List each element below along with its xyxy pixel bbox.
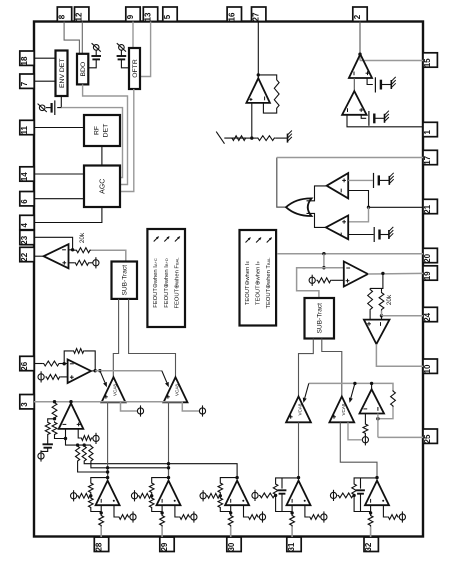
svg-text:11: 11: [20, 126, 29, 135]
wire feedback top: [258, 75, 276, 78]
svg-text:16: 16: [227, 12, 236, 21]
wire ladder branch: [48, 419, 55, 422]
control arrow into VCA4: [349, 383, 355, 403]
ground at divider: [288, 131, 292, 143]
wire comparator A3 output to OR input 1: [307, 186, 327, 201]
terminal circle below A10: [362, 434, 368, 445]
wire node to subtractor amp minus: [381, 316, 383, 320]
wire A4 output to OR input 2: [307, 213, 326, 227]
wire R2 to capacitor: [47, 436, 49, 445]
wire capacitor to ground: [374, 117, 384, 119]
node FE amp minus: [62, 362, 65, 365]
svg-text:27: 27: [252, 12, 261, 21]
ground at A4: [389, 227, 393, 239]
capacitor ladder: [43, 444, 53, 447]
VCA3 amplifier: [286, 397, 311, 423]
svg-text:24: 24: [423, 312, 432, 321]
svg-text:8: 8: [58, 14, 67, 19]
wire feedback bottom to minus input: [263, 103, 276, 113]
wire to pin: [100, 527, 102, 538]
wire SUB-Tract to VCA1 control: [113, 299, 118, 377]
resistor plus bias: [179, 515, 191, 520]
op-amp comparator A3: [327, 173, 349, 198]
terminal circle at A6 plus input: [309, 275, 315, 286]
RF amplifier 3 (pin 30): [200, 476, 266, 537]
pin 9: [126, 7, 140, 21]
resistor feedback upper: [149, 482, 154, 494]
terminal circle ladder: [38, 450, 44, 461]
wire resistor to terminal: [90, 262, 93, 264]
pin 11: [20, 120, 34, 134]
resistor divider left: [231, 136, 247, 141]
resistor feedback lower: [149, 497, 154, 509]
pin 13: [143, 7, 157, 21]
svg-text:6: 6: [20, 199, 29, 204]
wire capacitor to ground: [380, 234, 389, 236]
block SUB-Tract (left): [112, 262, 138, 299]
resistor gain A: [368, 288, 373, 310]
node A9 minus: [64, 437, 67, 440]
op-amp RF amplifier: [225, 481, 249, 506]
wire A2 minus input to pin 1: [347, 115, 423, 127]
wire BDO to external capacitor: [88, 60, 96, 68]
terminal circle bias: [200, 493, 206, 499]
node trio 1: [76, 443, 79, 446]
wire pin 2 to buffer A1: [359, 22, 361, 55]
wire OFTR to AGC input 3: [120, 89, 134, 192]
terminal circle VCA2 out: [199, 405, 205, 416]
wire RF DET to AGC: [101, 146, 103, 166]
node mid feedback: [219, 494, 222, 497]
svg-text:DET: DET: [103, 124, 110, 138]
bus wire to RF amp 3: [84, 462, 237, 478]
resistor plus bias: [118, 515, 130, 520]
ground at A2: [385, 111, 389, 123]
resistor feedback: [273, 483, 278, 495]
wire A6 output to pin 19: [368, 272, 423, 275]
svg-text:RF: RF: [94, 126, 101, 135]
terminal circle plus bias: [399, 514, 405, 520]
node mid feedback: [89, 494, 92, 497]
capacitor at OFTR (external): [117, 56, 127, 59]
resistor FE feedback: [73, 349, 85, 354]
wire 20K to SUB-Tract left: [91, 250, 126, 261]
wire to pin: [161, 527, 163, 538]
svg-text:2: 2: [353, 14, 362, 19]
wire divider left end: [224, 137, 246, 139]
terminal circle at A9 plus: [93, 433, 99, 444]
node A9 output: [69, 400, 72, 403]
svg-text:9: 9: [126, 14, 135, 19]
node input bottom: [290, 511, 293, 514]
pin 24: [423, 307, 437, 321]
terminal circle plus bias: [321, 514, 327, 520]
node trio 2: [83, 443, 86, 446]
svg-text:VCA8: VCA8: [341, 403, 346, 415]
resistor feedback upper: [89, 482, 94, 494]
capacitor feedback: [360, 478, 362, 489]
svg-text:VCA8: VCA8: [298, 403, 303, 415]
resistor to package pin: [100, 512, 102, 515]
resistor plus bias: [309, 515, 321, 520]
svg-text:30: 30: [227, 542, 236, 551]
pin 14: [20, 167, 34, 181]
wire plus input right: [175, 505, 179, 517]
terminal circle at BDO cap: [92, 43, 101, 51]
svg-text:TEOUT⊕when IF: TEOUT⊕when IF: [256, 260, 262, 305]
terminal circle bias: [131, 493, 137, 499]
wire plus input right: [114, 505, 118, 517]
wire capacitor to ground: [381, 84, 391, 86]
break slash at divider left: [216, 132, 224, 144]
svg-text:SUB-Tract: SUB-Tract: [317, 303, 324, 334]
wire pin 18 to ENV DET: [34, 57, 56, 59]
block SUB-Tract (right): [305, 298, 335, 339]
wire A4 minus input to capacitor: [348, 234, 373, 236]
wire OR output to pin 17: [277, 158, 288, 208]
resistor bias: [337, 493, 354, 498]
resistor bias: [77, 493, 91, 498]
wire A7 output to pin 10: [376, 344, 423, 366]
block ENV DET: [56, 51, 68, 97]
svg-text:TEOUT⊖when IE: TEOUT⊖when IE: [245, 261, 251, 306]
wire A10 output to bus: [371, 383, 373, 389]
terminal circle FE plus: [38, 371, 44, 382]
terminal circle bias: [71, 493, 77, 499]
terminal circle plus bias: [191, 514, 197, 520]
wire pin 8 to BDO: [64, 22, 79, 54]
wire A2 output to A1 minus input: [353, 78, 355, 91]
resistor FE amp input: [43, 361, 60, 366]
pin 31: [287, 537, 301, 551]
op-amp RF amplifier: [157, 481, 181, 506]
terminal circle bias: [252, 492, 258, 498]
wire pin 13 to OFTR: [140, 22, 151, 77]
svg-text:AGC: AGC: [99, 179, 106, 194]
wire A3 minus input to pin 21 node: [348, 191, 368, 208]
wire feedback loop left: [276, 478, 299, 483]
svg-text:20k: 20k: [79, 232, 86, 243]
svg-text:VCA8: VCA8: [175, 384, 180, 396]
svg-text:29: 29: [160, 542, 169, 551]
node A8 output: [94, 369, 97, 372]
wire A8 output control bus: [91, 370, 95, 372]
pin 2: [353, 7, 367, 21]
pin 27: [252, 7, 266, 21]
wire capacitor to terminal: [41, 448, 48, 452]
wire OFTR to external capacitor: [121, 60, 129, 68]
svg-text:ENV DET: ENV DET: [59, 59, 66, 88]
terminal circle at OFTR cap: [117, 43, 126, 51]
resistor bias: [259, 493, 276, 498]
op-amp comparator A4: [326, 216, 348, 240]
RF amplifier 5 (pin 32): [330, 476, 405, 537]
resistor 20K feedback: [75, 248, 91, 253]
svg-text:23: 23: [20, 235, 29, 244]
pin 21: [423, 199, 437, 213]
op-amp A9: [59, 403, 84, 429]
ground at A1: [391, 77, 395, 89]
wire to pin 24: [382, 311, 424, 316]
svg-text:BDO: BDO: [80, 62, 87, 77]
control arrow into VCA3: [303, 383, 309, 403]
op-amp A10 TE drive: [360, 389, 385, 413]
pin 18: [20, 51, 34, 65]
block BDO: [77, 54, 88, 85]
wire loop bottom to input: [91, 505, 101, 511]
svg-text:3: 3: [20, 402, 29, 407]
node mid feedback: [274, 494, 277, 497]
svg-text:4: 4: [20, 223, 29, 228]
wire pin 6 to AGC: [34, 198, 84, 200]
capacitor at A4: [374, 227, 379, 242]
capacitor feedback: [281, 478, 283, 489]
wire node to comparator A4 plus input: [349, 207, 369, 222]
bus wire to RF amp 1: [78, 462, 108, 478]
svg-text:28: 28: [95, 542, 104, 551]
resistor ladder R1: [52, 402, 57, 419]
resistor feedback upper: [218, 482, 223, 494]
svg-text:13: 13: [144, 12, 153, 21]
wire pin 27 to comparator output: [257, 22, 259, 79]
wire pin 12 to BDO: [81, 22, 83, 54]
resistor to package pin: [370, 512, 372, 515]
node pin 20 branch: [322, 252, 325, 255]
svg-text:SUB-Tract: SUB-Tract: [122, 265, 129, 296]
wire AGC to pin 4: [34, 207, 102, 223]
wire pin 3 bus: [34, 401, 183, 403]
resistor feedback: [352, 483, 357, 495]
VCA1 amplifier: [102, 377, 126, 402]
pin 20: [423, 248, 437, 262]
op-amp comparator U1 (focus ok): [246, 78, 270, 103]
wire node to pin 21: [369, 206, 424, 208]
svg-text:20: 20: [423, 253, 432, 262]
wire capacitor to terminal: [46, 107, 52, 109]
ground at A3: [389, 173, 393, 185]
pin 32: [364, 537, 378, 551]
wire feedback to minus node: [378, 407, 393, 419]
resistor bias: [138, 493, 152, 498]
resistor A10 feedback: [391, 390, 396, 407]
terminal circle VCA1 out: [137, 405, 143, 416]
svg-text:12: 12: [75, 12, 84, 21]
pin 28: [94, 537, 108, 551]
node TE bus 2: [370, 382, 373, 385]
svg-text:19: 19: [423, 271, 432, 280]
op-amp buffer A1: [349, 54, 372, 78]
wire pin 7 to ENV DET: [34, 80, 56, 82]
control bus TE: [309, 383, 393, 390]
wire loop bottom to input: [220, 505, 230, 511]
node ladder mid: [53, 417, 56, 420]
node TE bus 1: [353, 382, 356, 385]
svg-text:26: 26: [20, 361, 29, 370]
svg-text:25: 25: [423, 434, 432, 443]
capacitor at A3: [374, 173, 379, 188]
pin 5: [163, 7, 177, 21]
svg-text:21: 21: [423, 204, 432, 213]
pin 4: [20, 215, 34, 229]
wire A1 plus input to capacitor: [367, 78, 373, 85]
op-amp RF amplifier: [365, 481, 389, 506]
terminal circle at A5: [93, 257, 99, 268]
capacitor at A1: [375, 77, 381, 92]
wire TEOUT node to pin 20: [277, 253, 423, 255]
pin 16: [227, 7, 241, 21]
wire feedback loop left: [91, 478, 108, 482]
control arrow into VCA2: [162, 371, 169, 388]
pin 6: [20, 192, 34, 206]
wire ENV DET to AGC input 1: [61, 108, 122, 178]
wire A6 minus loop to SUB-Tract right: [297, 268, 344, 298]
pin 3: [20, 395, 34, 409]
pin 10: [423, 359, 437, 373]
wire pin 11 to RF DET: [34, 127, 84, 129]
resistor feedback lower: [218, 497, 223, 509]
wire feedback to output: [85, 351, 96, 371]
wire feedback loop left: [220, 478, 237, 482]
op-amp RF amplifier: [287, 481, 311, 506]
svg-text:1: 1: [423, 130, 432, 135]
resistor at A6 plus input: [317, 278, 332, 283]
wire VCA3 to RF amp 4: [298, 422, 300, 478]
node input bottom: [229, 511, 232, 514]
terminal circle at ENV DET cap: [38, 104, 47, 112]
node ladder: [53, 400, 56, 403]
node RF amp input top x=377: [375, 476, 378, 479]
wire pin 22 to comparator A5 output: [34, 255, 44, 257]
block OFTR: [129, 48, 140, 89]
svg-text:14: 14: [20, 172, 29, 181]
wire A10 plus stub to resistor: [364, 414, 366, 424]
op-amp A8 FE drive: [68, 360, 91, 384]
svg-text:20k: 20k: [386, 294, 393, 305]
op-amp comparator A6: [344, 262, 368, 287]
resistor to package pin: [291, 512, 293, 515]
pin 30: [227, 537, 241, 551]
node to pin 24: [380, 314, 383, 317]
wire to pin: [291, 527, 293, 538]
bus junction nodes: [106, 466, 109, 469]
svg-text:10: 10: [423, 364, 432, 373]
svg-text:31: 31: [287, 542, 296, 551]
svg-text:22: 22: [20, 252, 29, 261]
capacitor at ENV DET (external): [52, 100, 55, 115]
RF amplifier 1 (pin 28): [71, 476, 137, 537]
resistor plus bias: [248, 515, 260, 520]
node input bottom: [369, 511, 372, 514]
node RF amp input top x=298.5: [297, 476, 300, 479]
node A1 output: [358, 53, 361, 56]
svg-text:VCA8: VCA8: [113, 384, 118, 396]
wire feedback up: [64, 351, 72, 364]
wire feedback loop left: [152, 478, 169, 482]
wire VCA4 to RF amp 5: [340, 422, 377, 477]
node A10 minus: [376, 417, 379, 420]
wire pin 14 to AGC: [34, 173, 84, 175]
node A6 output: [381, 272, 384, 275]
VCA2 amplifier: [164, 377, 188, 402]
resistor trio A: [76, 445, 80, 462]
RF amplifier 2 (pin 29): [131, 476, 197, 537]
wire capacitor to terminal: [95, 50, 97, 56]
wire plus input right: [305, 505, 309, 517]
resistor at A9 plus: [80, 436, 92, 441]
svg-text:OFTR: OFTR: [132, 59, 139, 78]
wire VCA1 output to terminal: [121, 402, 138, 411]
wire gain A to subtractor amp plus: [369, 311, 371, 320]
wire pin 23 to A5 minus input: [34, 237, 73, 250]
pin 26: [20, 356, 34, 370]
op-amp buffer A2: [342, 91, 367, 115]
OR gate (defect detect): [286, 198, 312, 216]
pin 19: [423, 266, 437, 280]
svg-text:5: 5: [163, 14, 172, 19]
wire node to A6 minus input: [323, 254, 325, 268]
svg-text:7: 7: [20, 81, 29, 86]
note box FEOUT conditions: [147, 229, 185, 327]
wire A2 plus input to capacitor: [361, 115, 366, 119]
resistor feedback lower: [89, 497, 94, 509]
note box TEOUT conditions: [240, 230, 277, 326]
bus wire to RF amp 2: [91, 462, 169, 478]
terminal circle plus bias: [130, 514, 136, 520]
wire loop bottom to input: [152, 505, 162, 511]
pin 17: [423, 150, 437, 164]
node RF amp input top x=107.6: [106, 476, 109, 479]
wire A3 plus input to capacitor: [348, 179, 373, 181]
wire output node down to gain resistors: [370, 273, 383, 288]
wire pin 9 to OFTR: [132, 22, 134, 49]
node mid feedback: [150, 494, 153, 497]
wire divider right to ground: [275, 137, 287, 139]
wire SUB-Tract to VCA2 control: [129, 299, 176, 377]
wire VCA2 to RF amp 2: [168, 402, 170, 477]
wire to pin: [230, 527, 232, 538]
node input bottom: [100, 511, 103, 514]
pin 12: [75, 7, 89, 21]
pin 22: [20, 247, 34, 261]
wire capacitor to ground: [379, 179, 390, 181]
svg-text:15: 15: [423, 58, 432, 67]
node divider: [250, 136, 253, 139]
pin 7: [20, 74, 34, 88]
resistor trio C: [89, 445, 93, 462]
wire SUB-Tract right to VCA3 control: [299, 339, 314, 397]
wire pin 26 to input resistor: [34, 363, 43, 365]
resistor to package pin: [230, 512, 232, 515]
wire VCA1 to RF amp 1: [107, 402, 109, 477]
resistor gain B 20K: [379, 292, 384, 311]
pin 23: [20, 230, 34, 244]
wire A5 plus input resistor: [69, 262, 75, 264]
wire A9 plus input to resistor: [78, 429, 80, 438]
wire to pin: [370, 527, 372, 538]
resistor ladder R3: [52, 421, 57, 435]
node RF amp input top x=237.1: [235, 476, 238, 479]
node A5 minus: [71, 248, 74, 251]
node at comparator output: [257, 73, 260, 76]
pin 29: [160, 537, 174, 551]
wire VCA2 output to terminal: [182, 402, 199, 411]
svg-text:17: 17: [423, 155, 432, 164]
terminal circle plus bias: [259, 514, 265, 520]
capacitor at BDO (external): [91, 56, 101, 59]
wire plus input right: [244, 505, 248, 517]
pin 15: [423, 53, 437, 67]
node pin 21: [367, 206, 370, 209]
